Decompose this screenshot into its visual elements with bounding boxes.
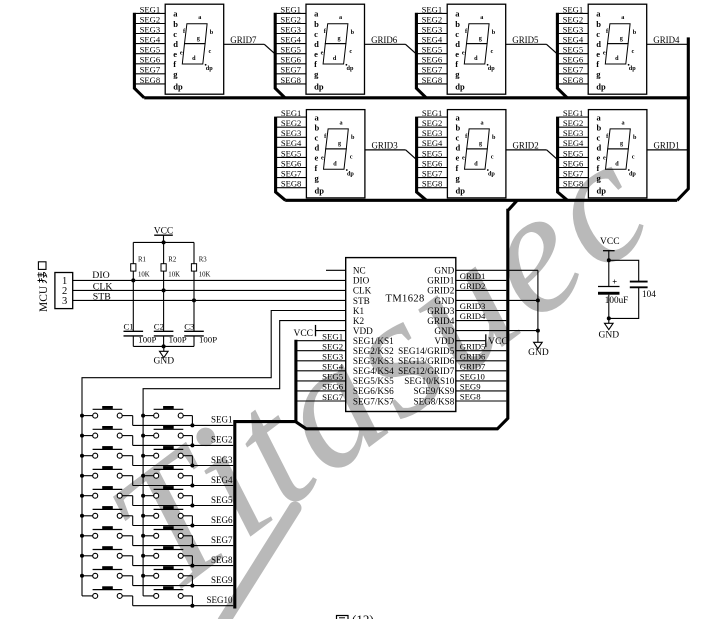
wire STB [73,299,346,301]
wire SEG8 pin of GRID5 [418,83,448,85]
svg-text:a: a [456,112,461,122]
svg-text:SEG6: SEG6 [211,515,233,525]
wire SEG5 pin of GRID4 [559,53,589,55]
svg-text:g: g [620,35,624,42]
wire SEG3 pin of GRID6 [276,33,306,35]
junction row SEG2 [190,443,194,447]
pushbutton S4 (row 2, col 2) [143,426,192,445]
svg-text:C3: C3 [184,321,195,331]
wire SEG5 pin of GRID3 [277,156,307,158]
svg-text:NC: NC [353,266,366,276]
svg-text:c: c [173,29,177,39]
svg-text:SEG4/KS4: SEG4/KS4 [353,366,394,376]
svg-text:SEG3/KS3: SEG3/KS3 [353,356,394,366]
pushbutton S18 (row 9, col 2) [143,566,192,585]
svg-text:SEG8: SEG8 [422,75,443,85]
junction keypad column 2 row 8 [141,554,145,558]
svg-text:STB: STB [93,292,111,303]
svg-text:g: g [314,69,319,79]
svg-text:b: b [492,134,496,141]
svg-text:VDD: VDD [434,336,454,346]
svg-text:SEG1: SEG1 [140,4,161,14]
power symbol VCC (decoupling) [600,237,620,260]
wire SEG5 (keypad net) to U1 [296,380,346,382]
display body outline GRID7 [165,4,224,94]
svg-text:c: c [209,48,212,55]
wire SEG7 pin of GRID1 [559,177,589,179]
wire SEG1 pin of GRID7 [136,12,166,14]
svg-text:GRID4: GRID4 [653,35,680,45]
junction row SEG5 [190,504,194,508]
wire SEG1 pin of GRID3 [277,116,307,118]
svg-text:VCC: VCC [488,337,508,347]
svg-text:GRID3: GRID3 [460,301,486,311]
wire SEG3 pin of GRID3 [277,136,307,138]
svg-text:d: d [173,39,178,49]
wire SEG7 (keypad net) to U1 [296,400,346,402]
svg-text:SEG3: SEG3 [563,128,584,138]
wire SEG3 (keypad net) to U1 [296,360,346,362]
svg-text:SEG3: SEG3 [280,24,301,34]
svg-text:SEG7: SEG7 [211,535,233,545]
pushbutton S9 (row 5, col 1) [82,486,133,505]
wire SEG9 from U1 to bus [456,390,507,392]
svg-text:dp: dp [315,185,325,195]
svg-text:GRID6: GRID6 [460,351,486,361]
svg-text:SEG12/GRID7: SEG12/GRID7 [398,366,455,376]
svg-text:SEG1: SEG1 [281,108,302,118]
svg-text:SEG5/KS5: SEG5/KS5 [353,376,394,386]
svg-text:SEG4: SEG4 [422,35,443,45]
svg-text:e: e [314,49,318,59]
junction caps to GND [607,316,611,320]
svg-text:b: b [633,134,637,141]
svg-text:SEG7: SEG7 [422,169,443,179]
svg-text:e: e [321,155,324,162]
svg-text:dp: dp [347,65,354,72]
svg-text:SEG5: SEG5 [140,45,161,55]
display body outline GRID6 [306,4,365,94]
caption 图(12) partial [337,612,374,619]
svg-text:d: d [333,55,337,62]
junction keypad column 1 row 8 [80,554,84,558]
svg-text:SEG5: SEG5 [281,148,302,158]
resistor R3 10K [191,242,210,300]
svg-text:R1: R1 [138,257,146,264]
ground symbol GND (RC network) [154,346,175,366]
svg-text:dp: dp [456,185,466,195]
wire SEG6 pin of GRID7 [136,63,166,65]
junction keypad column 2 row 9 [141,574,145,578]
bus: top-row SEG/GRID horizontal bus [144,96,690,99]
svg-text:SEG6: SEG6 [140,55,161,65]
wire keypad row SEG4 [133,485,234,487]
svg-text:SEG2: SEG2 [563,118,584,128]
svg-text:SEG10: SEG10 [460,372,486,382]
svg-text:GRID3: GRID3 [427,306,454,316]
svg-text:SEG8: SEG8 [281,179,302,189]
svg-text:dp: dp [629,170,636,177]
display body outline GRID1 [588,110,647,198]
capacitor C1 100P [124,280,157,346]
svg-text:SEG7: SEG7 [281,169,302,179]
svg-text:SEG3: SEG3 [422,24,443,34]
junction keypad column 1 row 6 [80,514,84,518]
wire keypad row SEG7 [133,545,234,547]
wire GRID7 to bus [224,43,265,45]
wire GRID5 to bus [506,43,547,45]
svg-text:a: a [314,9,319,19]
pushbutton S5 (row 3, col 1) [82,446,133,465]
svg-text:SEG1: SEG1 [211,415,233,425]
svg-text:e: e [603,49,606,56]
wire GND pins of U1 [456,269,538,271]
wire GRID2 to bus [506,149,547,151]
wire SEG4 pin of GRID7 [136,43,166,45]
svg-text:a: a [621,119,624,126]
svg-text:SEG7: SEG7 [322,392,344,402]
svg-text:a: a [339,119,342,126]
svg-text:SEG8: SEG8 [280,75,301,85]
ground symbol GND (U1) [528,342,549,358]
svg-text:SEG13/GRID6: SEG13/GRID6 [398,356,455,366]
wire SEG6 pin of GRID2 [418,167,448,169]
svg-text:f: f [315,163,318,173]
svg-text:e: e [603,155,606,162]
wire SEG5 pin of GRID6 [276,53,306,55]
svg-text:e: e [321,49,324,56]
wire keypad row SEG6 [133,525,234,527]
svg-text:MCU: MCU [38,285,50,312]
junction row SEG3 [190,464,194,468]
bus segment (SEG bus drop) for GRID1 [558,117,568,201]
wire SEG1 pin of GRID5 [418,12,448,14]
svg-text:e: e [180,49,183,56]
junction row SEG4 [190,484,194,488]
bus: vertical bus left of TM1628 (SEG1-7) [294,340,297,423]
wire GRID1 to bus [647,149,687,151]
bus: central vertical bus to TM1628 with bottom run [509,200,518,210]
junction VCC rail [162,240,166,244]
svg-text:SEG2: SEG2 [281,118,302,128]
svg-text:g: g [479,35,483,42]
junction R2 to line [162,288,166,292]
svg-text:b: b [597,123,602,133]
wire SEG2 pin of GRID7 [136,23,166,25]
pushbutton S15 (row 8, col 1) [82,546,133,565]
svg-text:SEG6/KS6: SEG6/KS6 [353,386,394,396]
wire SEG8 pin of GRID3 [277,187,307,189]
svg-text:e: e [462,155,465,162]
svg-text:c: c [632,154,635,161]
wire SEG7 pin of GRID6 [276,73,306,75]
junction keypad column 1 row 1 [80,414,84,418]
wire DIO [73,279,346,281]
svg-text:b: b [351,29,355,36]
segment letters of GRID2 [462,119,496,177]
junction keypad column 2 row 4 [141,474,145,478]
7-segment display module GRID7 [134,4,274,98]
svg-text:GND: GND [434,266,454,276]
svg-text:SEG5: SEG5 [563,45,584,55]
bus: far-right vertical bus [677,37,688,200]
svg-text:e: e [173,49,177,59]
bus segment (SEG bus drop) for GRID4 [557,13,567,98]
svg-text:d: d [455,39,460,49]
svg-text:c: c [456,133,460,143]
svg-text:b: b [315,123,320,133]
svg-text:SEG2: SEG2 [422,14,443,24]
segment letters of GRID3 [321,119,355,177]
svg-text:SEG9: SEG9 [460,382,481,392]
svg-text:SEG5: SEG5 [563,148,584,158]
svg-text:dp: dp [629,65,636,72]
svg-text:d: d [192,55,196,62]
svg-text:SEG4: SEG4 [280,35,301,45]
svg-text:SEG5: SEG5 [322,372,344,382]
wire SEG1 pin of GRID1 [559,116,589,118]
junction row SEG9 [190,584,194,588]
wire SEG4 pin of GRID6 [276,43,306,45]
7-segment display module GRID2 [417,108,557,200]
wire SEG10 from U1 to bus [456,380,507,382]
wire SEG8 pin of GRID2 [418,187,448,189]
svg-text:VCC: VCC [293,329,313,339]
power symbol VCC (pull-up rail) [154,226,174,242]
svg-text:SEG1: SEG1 [563,108,584,118]
wire SEG4 pin of GRID3 [277,146,307,148]
segment letters of GRID4 [603,14,637,72]
svg-text:dp: dp [314,82,324,92]
wire SEG4 pin of GRID4 [559,43,589,45]
label MCU接口 [37,262,50,312]
wire SEG6 pin of GRID3 [277,167,307,169]
segment letters of GRID1 [603,119,637,177]
svg-text:a: a [480,119,483,126]
svg-text:SEG3: SEG3 [422,128,443,138]
svg-text:a: a [315,112,320,122]
svg-text:c: c [349,48,352,55]
svg-text:b: b [492,29,496,36]
svg-text:K1: K1 [353,306,365,316]
power symbol VCC at U1 VDD (left) [293,325,345,339]
svg-text:SEG9: SEG9 [211,575,233,585]
wire SEG7 pin of GRID5 [418,73,448,75]
svg-text:SEG8: SEG8 [460,392,481,402]
svg-text:SEG2: SEG2 [422,118,443,128]
junction keypad column 2 row 3 [141,454,145,458]
svg-text:SEG2: SEG2 [322,342,343,352]
svg-text:g: g [620,140,624,147]
svg-text:SEG6: SEG6 [422,55,443,65]
junction keypad column 2 row 5 [141,494,145,498]
7-segment digit glyph of GRID6 [325,24,348,44]
wire SEG1 pin of GRID6 [276,12,306,14]
pushbutton S3 (row 2, col 1) [82,426,133,445]
bus segment (SEG bus drop) for GRID2 [417,117,427,201]
wire SEG6 pin of GRID5 [418,63,448,65]
svg-text:SEG8/KS8: SEG8/KS8 [413,396,454,406]
svg-text:f: f [456,163,459,173]
svg-text:GRID1: GRID1 [460,271,486,281]
junction keypad column 1 row 3 [80,454,84,458]
junction keypad column 1 row 5 [80,494,84,498]
wire GRID7 from U1 to bus [456,370,507,372]
wire SEG5 pin of GRID1 [559,156,589,158]
svg-text:SEG2: SEG2 [280,14,301,24]
svg-text:SEG4: SEG4 [422,138,443,148]
svg-text:a: a [455,9,460,19]
junction GND net [536,298,540,302]
wire SEG2 pin of GRID5 [418,23,448,25]
wire GRID3 from U1 to bus [456,310,507,312]
segment letters of GRID5 [462,14,496,72]
svg-text:g: g [315,173,320,183]
svg-text:GRID1: GRID1 [427,276,454,286]
junction R1 to line [131,278,135,282]
svg-text:GND: GND [434,296,454,306]
svg-text:SEG8: SEG8 [563,75,584,85]
wire SEG2 pin of GRID3 [277,126,307,128]
svg-text:100P: 100P [199,334,217,344]
svg-text:g: g [479,140,483,147]
svg-text:a: a [173,9,178,19]
7-segment display module GRID3 [276,108,416,200]
svg-text:e: e [455,49,459,59]
svg-text:e: e [456,153,460,163]
capacitor C3 100P [184,300,217,346]
wire NC stub [326,269,346,271]
svg-text:SEG6: SEG6 [563,158,584,168]
svg-text:GRID1: GRID1 [654,141,680,151]
svg-text:dp: dp [455,82,465,92]
bus segment (SEG bus drop) for GRID7 [134,13,144,98]
svg-text:GRID5: GRID5 [460,341,486,351]
svg-text:b: b [455,19,460,29]
wire SEG3 pin of GRID4 [559,33,589,35]
svg-text:SEG8: SEG8 [140,75,161,85]
resistor R1 10K [131,242,150,280]
wire capacitor commons [133,345,194,347]
svg-text:SEG1: SEG1 [280,4,301,14]
svg-text:d: d [474,161,478,168]
junction row SEG6 [190,524,194,528]
junction keypad column 1 row 9 [80,574,84,578]
svg-text:SEG4: SEG4 [140,35,161,45]
svg-text:d: d [333,161,337,168]
svg-text:SEG7: SEG7 [140,65,161,75]
svg-text:e: e [596,49,600,59]
wire SEG2 pin of GRID6 [276,23,306,25]
svg-text:c: c [491,154,494,161]
bus: second-row SEG/GRID horizontal bus [285,199,677,202]
svg-text:VDD: VDD [353,326,373,336]
svg-text:SEG6: SEG6 [322,382,344,392]
junction row SEG10 [190,604,194,608]
bus segment (SEG bus drop) for GRID5 [416,13,426,98]
junction keypad column 1 row 2 [80,434,84,438]
wire SEG8 pin of GRID1 [559,187,589,189]
svg-text:GND: GND [434,326,454,336]
wire GRID2 from U1 to bus [456,289,507,291]
svg-text:c: c [632,48,635,55]
7-segment digit glyph of GRID3 [326,129,349,149]
svg-text:SEG2: SEG2 [211,435,233,445]
wire SEG2 pin of GRID4 [559,23,589,25]
svg-text:GRID4: GRID4 [460,311,486,321]
svg-text:GRID2: GRID2 [427,286,454,296]
capacitor C4 100uF electrolytic [598,260,628,318]
svg-text:SEG3: SEG3 [140,24,161,34]
svg-text:SEG1: SEG1 [563,4,584,14]
wire keypad row SEG1 [133,424,234,426]
resistor R2 10K [161,242,180,290]
svg-text:SEG7: SEG7 [422,65,443,75]
wire GRID6 from U1 to bus [456,360,507,362]
svg-text:GND: GND [528,348,549,358]
junction cap common [162,344,166,348]
svg-text:C2: C2 [154,321,164,331]
svg-text:d: d [615,55,619,62]
wire SEG5 pin of GRID7 [136,53,166,55]
pushbutton S10 (row 5, col 2) [143,486,192,505]
wire SEG7 pin of GRID7 [136,73,166,75]
wire SEG2 pin of GRID2 [418,126,448,128]
svg-text:dp: dp [206,65,213,72]
svg-text:f: f [597,163,600,173]
svg-text:d: d [314,39,319,49]
junction keypad column 1 row 4 [80,474,84,478]
svg-text:g: g [596,69,601,79]
svg-text:dp: dp [597,185,607,195]
junction keypad column 2 row 7 [141,534,145,538]
svg-text:c: c [314,29,318,39]
op-amp U1 TM1628 body [346,258,456,412]
svg-text:c: c [596,29,600,39]
ground symbol GND (decoupling) [599,318,620,340]
svg-text:f: f [173,59,176,69]
svg-text:dp: dp [488,170,495,177]
svg-text:VCC: VCC [600,237,620,247]
svg-text:GRID5: GRID5 [512,35,539,45]
svg-text:TM1628: TM1628 [386,294,425,305]
pushbutton S17 (row 9, col 1) [82,566,133,585]
svg-text:dp: dp [173,82,183,92]
junction row SEG1 [190,423,194,427]
svg-text:10K: 10K [199,271,211,278]
capacitor C5 104 [609,260,656,318]
svg-text:SEG8: SEG8 [563,179,584,189]
pushbutton S12 (row 6, col 2) [143,506,192,525]
svg-text:SEG2: SEG2 [140,14,161,24]
svg-text:f: f [314,59,317,69]
wire keypad row SEG5 [133,505,234,507]
wire SEG3 pin of GRID7 [136,33,166,35]
pushbutton S1 (row 1, col 1) [82,406,133,425]
svg-text:GND: GND [154,357,175,367]
svg-text:SEG1/KS1: SEG1/KS1 [353,336,394,346]
pushbutton S6 (row 3, col 2) [143,446,192,465]
svg-text:dp: dp [347,170,354,177]
svg-text:SEG1: SEG1 [322,332,343,342]
bus segment (SEG bus drop) for GRID3 [276,117,286,201]
wire SEG3 pin of GRID2 [418,136,448,138]
wire CLK [73,289,346,291]
wire SEG4 pin of GRID5 [418,43,448,45]
svg-text:10K: 10K [138,271,150,278]
svg-text:DIO: DIO [353,276,370,286]
svg-text:SEG7: SEG7 [280,65,301,75]
